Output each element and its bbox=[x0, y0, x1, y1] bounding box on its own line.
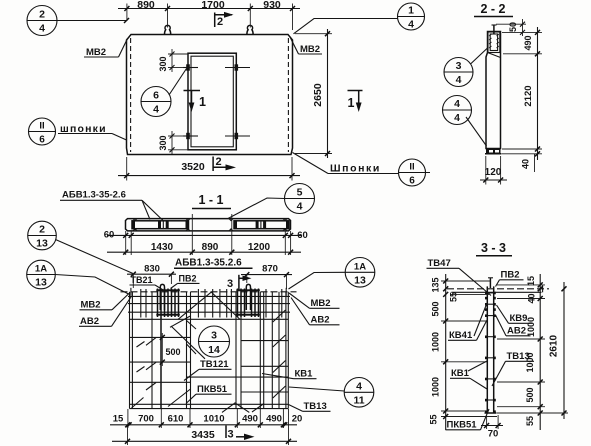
svg-text:1А: 1А bbox=[35, 264, 47, 275]
svg-text:500: 500 bbox=[525, 387, 535, 402]
svg-text:4: 4 bbox=[39, 23, 45, 35]
section marker 2 top bbox=[214, 13, 216, 28]
svg-text:МВ2: МВ2 bbox=[81, 300, 101, 311]
member 3-3 verticals bbox=[486, 286, 488, 413]
lifting hook left bbox=[165, 25, 171, 34]
svg-text:1000: 1000 bbox=[526, 317, 536, 337]
svg-text:60: 60 bbox=[104, 230, 115, 241]
svg-text:2: 2 bbox=[216, 156, 222, 168]
callout circle 4/11 bbox=[344, 378, 374, 408]
hook pin bbox=[493, 25, 495, 34]
callout circle II/6 right bbox=[399, 159, 426, 186]
svg-text:КВ1: КВ1 bbox=[451, 368, 470, 379]
svg-text:120: 120 bbox=[485, 167, 502, 178]
svg-text:60: 60 bbox=[297, 230, 308, 241]
member cross ties bbox=[486, 293, 495, 400]
section marker 3 bottom bbox=[225, 426, 227, 439]
svg-text:КВ41: КВ41 bbox=[449, 330, 473, 341]
svg-text:АВ2: АВ2 bbox=[311, 315, 330, 326]
svg-text:14: 14 bbox=[208, 344, 220, 356]
leader 2/13 bbox=[56, 240, 134, 274]
svg-text:1200: 1200 bbox=[248, 242, 271, 253]
svg-text:830: 830 bbox=[144, 264, 160, 275]
door opening outer bbox=[188, 53, 236, 150]
svg-text:2: 2 bbox=[217, 16, 223, 28]
callout circle II/6 left + label bbox=[29, 118, 56, 145]
svg-text:2610: 2610 bbox=[549, 334, 560, 357]
svg-text:4: 4 bbox=[454, 112, 460, 124]
top dimension line 890/1700/930 bbox=[118, 8, 300, 10]
right dim line 15/40/1000/1000/500/55 bbox=[539, 274, 541, 430]
bolt top-left bbox=[186, 64, 190, 70]
svg-text:АВ2: АВ2 bbox=[507, 326, 526, 337]
svg-text:500: 500 bbox=[431, 301, 441, 316]
svg-text:ПВ2: ПВ2 bbox=[179, 274, 197, 284]
door opening inner bbox=[191, 56, 233, 147]
svg-text:1 - 1: 1 - 1 bbox=[198, 193, 223, 207]
callout circle 1A/13 left bbox=[27, 260, 56, 289]
svg-text:300: 300 bbox=[158, 56, 168, 71]
right dim line 490/2120/40 bbox=[537, 27, 539, 160]
section marker 1 right bbox=[348, 90, 363, 92]
member top pin bbox=[489, 278, 491, 288]
hook recess box bbox=[488, 32, 500, 53]
bottom dim line 2: 3435 bbox=[112, 440, 297, 442]
svg-text:ПКВ51: ПКВ51 bbox=[197, 384, 228, 395]
svg-text:300: 300 bbox=[158, 135, 168, 150]
svg-text:II: II bbox=[39, 121, 44, 132]
svg-text:13: 13 bbox=[35, 277, 47, 289]
svg-text:1000: 1000 bbox=[431, 332, 441, 352]
big diagonal lower left bbox=[168, 389, 191, 407]
svg-text:МВ2: МВ2 bbox=[300, 44, 320, 55]
keyway notches on bar edges bbox=[133, 219, 287, 221]
section marker 2 bottom bbox=[212, 157, 214, 172]
svg-text:3435: 3435 bbox=[191, 429, 215, 441]
member base bbox=[485, 412, 497, 414]
svg-text:3: 3 bbox=[456, 60, 462, 72]
svg-text:5: 5 bbox=[297, 187, 303, 199]
callout circle 1A/13 right bbox=[345, 258, 375, 288]
svg-text:2120: 2120 bbox=[523, 85, 534, 106]
leader from 1/4 bbox=[294, 19, 398, 34]
left assembly loop PV2 bbox=[160, 284, 164, 310]
centerline end ticks bbox=[130, 288, 132, 296]
svg-text:2: 2 bbox=[39, 224, 45, 236]
right assembly node dots bbox=[236, 289, 259, 291]
panel outline bbox=[127, 35, 293, 155]
svg-text:1010: 1010 bbox=[203, 414, 224, 425]
column base detail bbox=[486, 149, 501, 154]
bottom dimension 3520 bbox=[118, 175, 300, 177]
recess bottom slant bbox=[488, 53, 501, 58]
svg-text:6: 6 bbox=[409, 176, 415, 187]
dim row 1-1 line 2 (1430/890/1200) bbox=[107, 251, 301, 253]
svg-text:500: 500 bbox=[166, 347, 181, 357]
svg-text:3: 3 bbox=[228, 429, 234, 441]
svg-text:55: 55 bbox=[429, 414, 439, 424]
callout circle 1/4 bbox=[398, 3, 425, 30]
panel inner dashed edge right bbox=[287, 38, 289, 152]
svg-text:1430: 1430 bbox=[151, 242, 174, 253]
svg-text:6: 6 bbox=[39, 135, 45, 146]
dim 500 cage bbox=[161, 333, 163, 366]
svg-text:4: 4 bbox=[356, 380, 362, 392]
leader from 6/4 to bolt bbox=[169, 69, 187, 96]
callout circle 2/13 bbox=[28, 221, 57, 250]
right region horizontals bbox=[241, 340, 288, 342]
right dimension 2650 bbox=[327, 29, 329, 158]
svg-text:ТВ13: ТВ13 bbox=[507, 351, 530, 362]
dashed centerline 3-3 bbox=[447, 288, 549, 290]
svg-text:490: 490 bbox=[266, 414, 282, 425]
svg-text:АВ2: АВ2 bbox=[80, 316, 99, 327]
dim 120 bottom bbox=[480, 179, 507, 181]
svg-text:2: 2 bbox=[39, 9, 45, 21]
callout circle 4/4 bbox=[443, 96, 472, 125]
tie end squares bbox=[485, 292, 496, 413]
right assembly verticals bbox=[238, 289, 259, 318]
dim row 1-1 line 1 (60 ... 60) bbox=[107, 234, 301, 236]
svg-text:870: 870 bbox=[262, 264, 278, 275]
svg-text:1: 1 bbox=[199, 95, 206, 109]
svg-text:15: 15 bbox=[113, 414, 124, 425]
svg-text:ПВ2: ПВ2 bbox=[501, 270, 520, 281]
left assembly node dots bbox=[156, 289, 180, 291]
svg-text:3: 3 bbox=[211, 330, 217, 342]
bottom middle chevrons bbox=[222, 403, 249, 413]
lifting hook right bbox=[247, 25, 253, 34]
svg-text:II: II bbox=[409, 162, 414, 173]
svg-text:13: 13 bbox=[36, 238, 48, 250]
section marker 3 top bbox=[238, 275, 240, 291]
callout circle 6/4 bbox=[141, 87, 171, 117]
svg-text:930: 930 bbox=[263, 0, 281, 11]
bottom dim line 1: 15/700/610/1010/490/490/20 bbox=[110, 424, 297, 426]
dim 50 bbox=[496, 23, 526, 25]
leader 3/4 bbox=[471, 48, 488, 64]
leader 1A/13 right bbox=[289, 272, 346, 289]
svg-text:2 - 2: 2 - 2 bbox=[480, 2, 505, 16]
svg-text:11: 11 bbox=[353, 394, 364, 406]
svg-text:АБВ1.3-35-2.6: АБВ1.3-35-2.6 bbox=[62, 190, 126, 201]
svg-text:4: 4 bbox=[454, 98, 460, 110]
left assembly verticals bbox=[158, 289, 179, 318]
svg-text:КВ9: КВ9 bbox=[510, 313, 528, 324]
panel inner dashed edge left bbox=[130, 38, 132, 152]
leader from 5/4 to bar bbox=[228, 198, 285, 219]
cage bottom edge bbox=[130, 408, 289, 410]
svg-text:ТВ13: ТВ13 bbox=[304, 401, 327, 412]
right assembly loop bbox=[246, 284, 250, 310]
svg-text:70: 70 bbox=[488, 429, 499, 440]
svg-text:1А: 1А bbox=[354, 261, 366, 272]
svg-text:55: 55 bbox=[449, 292, 459, 302]
svg-text:1: 1 bbox=[408, 5, 414, 17]
right reinforcement assembly 1-1 bbox=[234, 221, 289, 229]
svg-text:490: 490 bbox=[242, 414, 258, 425]
bolt bottom-right bbox=[235, 133, 239, 139]
bolt bottom-left bbox=[186, 133, 190, 139]
svg-text:6: 6 bbox=[153, 90, 159, 102]
svg-text:КВ1: КВ1 bbox=[295, 369, 314, 380]
top band short verticals bbox=[140, 289, 142, 318]
svg-text:4: 4 bbox=[153, 104, 159, 116]
callout circle 3/4 bbox=[444, 58, 473, 87]
svg-text:3: 3 bbox=[227, 278, 233, 290]
svg-text:2650: 2650 bbox=[312, 83, 324, 107]
callout circle 2/4 bbox=[27, 6, 57, 36]
leader 1A/13 left bbox=[55, 275, 128, 295]
svg-text:3 - 3: 3 - 3 bbox=[481, 241, 506, 255]
diagonal hooks left column bbox=[146, 338, 156, 390]
svg-text:890: 890 bbox=[202, 242, 219, 253]
svg-text:3520: 3520 bbox=[181, 161, 205, 173]
leader 4/11 bbox=[289, 387, 344, 391]
svg-text:610: 610 bbox=[168, 414, 184, 425]
svg-text:МВ2: МВ2 bbox=[311, 298, 331, 309]
svg-text:20: 20 bbox=[292, 414, 303, 425]
dim 300 top bbox=[168, 53, 188, 55]
svg-text:490: 490 bbox=[523, 35, 533, 50]
svg-text:890: 890 bbox=[137, 0, 155, 11]
dashed centerline of cage bbox=[121, 291, 297, 293]
left dim line 135/55/500/1000/1000/55 bbox=[445, 274, 447, 430]
svg-text:55: 55 bbox=[525, 416, 535, 426]
svg-text:МВ2: МВ2 bbox=[86, 47, 106, 58]
left reinforcement assembly 1-1 bbox=[132, 221, 189, 229]
svg-text:Шпонки: Шпонки bbox=[330, 163, 381, 175]
leader from 2/4 bbox=[57, 20, 127, 22]
svg-text:ТВ21: ТВ21 bbox=[131, 275, 153, 285]
svg-text:1: 1 bbox=[348, 96, 355, 110]
bar 1-1 outline bbox=[126, 219, 291, 231]
svg-text:ПКВ51: ПКВ51 bbox=[447, 420, 478, 431]
svg-text:50: 50 bbox=[508, 22, 518, 32]
svg-text:40: 40 bbox=[527, 293, 537, 303]
top band diagonals bbox=[178, 292, 211, 319]
column 2-2 outline bbox=[486, 32, 501, 149]
leader 4/4 bbox=[466, 117, 487, 146]
long lower horizontals bbox=[187, 376, 289, 378]
dim 300 bottom bbox=[168, 135, 184, 137]
dim 70 bbox=[486, 415, 488, 429]
callout circle 3/14 bbox=[199, 326, 230, 357]
section marker 1 left bbox=[184, 90, 201, 92]
long top bar line bbox=[451, 291, 541, 293]
bolt top-right bbox=[235, 64, 239, 70]
far right dim 2610 bbox=[563, 282, 565, 419]
callout circle 5/4 bbox=[285, 184, 315, 214]
diagonal hooks right ladder bbox=[273, 310, 286, 398]
svg-text:1700: 1700 bbox=[201, 0, 225, 11]
svg-text:13: 13 bbox=[354, 274, 366, 286]
svg-text:1000: 1000 bbox=[431, 377, 441, 397]
svg-text:АБВ1.3-35.2.6: АБВ1.3-35.2.6 bbox=[175, 258, 242, 269]
svg-text:ТВ121: ТВ121 bbox=[200, 359, 229, 370]
left region horizontals bbox=[130, 336, 191, 338]
svg-text:40: 40 bbox=[521, 159, 531, 169]
svg-text:4: 4 bbox=[456, 74, 462, 86]
bottom extension verticals bbox=[127, 409, 129, 428]
svg-text:135: 135 bbox=[431, 277, 441, 292]
svg-text:ТВ47: ТВ47 bbox=[428, 258, 451, 269]
cage full-height verticals bbox=[129, 292, 131, 409]
top band horizontals bbox=[128, 295, 290, 297]
svg-text:4: 4 bbox=[297, 201, 303, 213]
svg-text:15: 15 bbox=[526, 276, 536, 286]
recess hatch ticks bbox=[489, 34, 492, 36]
svg-text:700: 700 bbox=[138, 414, 154, 425]
svg-text:4: 4 bbox=[408, 19, 414, 31]
